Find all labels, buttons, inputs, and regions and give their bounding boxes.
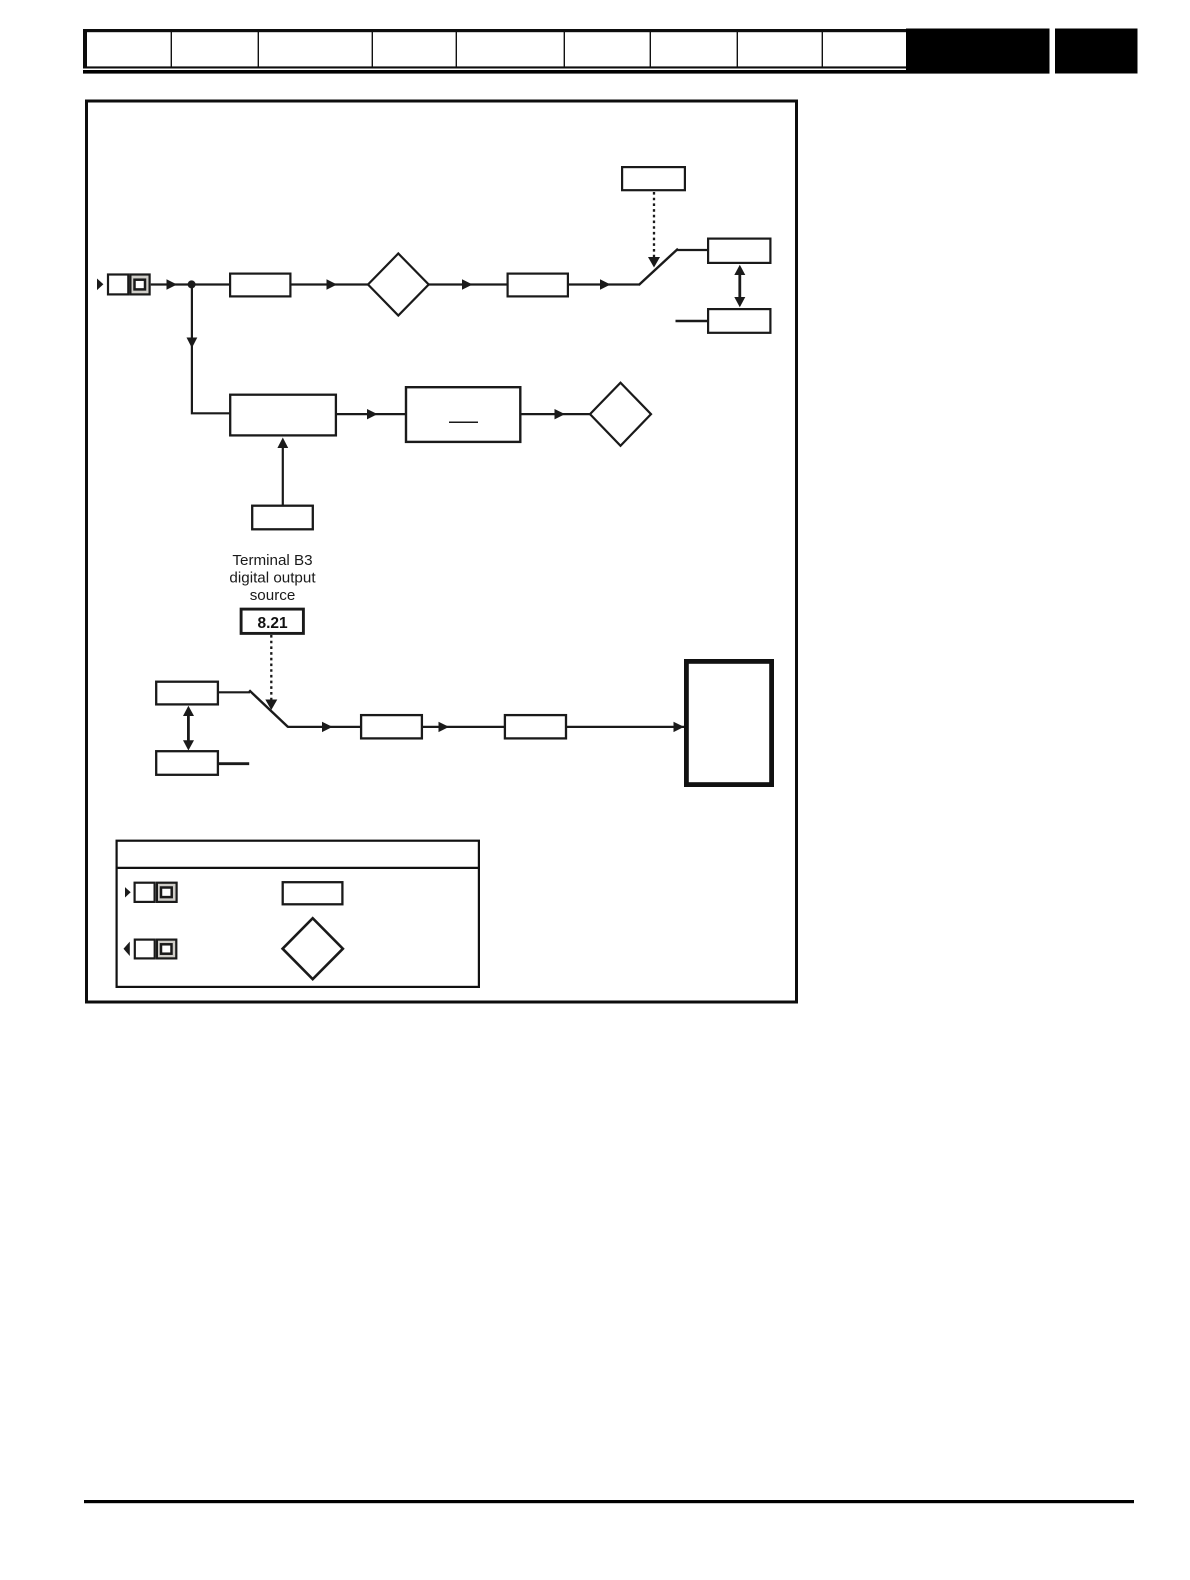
parameter box (top, source) — [622, 167, 685, 190]
box 1 (top row) — [230, 274, 290, 297]
wire box B to output terminal — [567, 726, 684, 728]
dotted select line 2 — [270, 635, 272, 700]
wire box2 to switch1 — [569, 283, 640, 285]
wire delay to function box — [337, 413, 405, 415]
wire input to junction — [151, 283, 192, 285]
wire switch1 to output-state box — [677, 249, 709, 251]
wire junction to box1 — [192, 283, 230, 285]
parameter box 8.21 — [241, 609, 303, 633]
svg-text:digital output: digital output — [229, 570, 316, 587]
header table — [83, 29, 906, 69]
invert box (right bottom) — [708, 309, 770, 333]
switch SW1 arm — [639, 249, 678, 285]
junction node — [188, 280, 196, 288]
double arrow between right boxes — [734, 265, 745, 308]
function box with divide bar — [406, 387, 520, 442]
key rectangle sample — [283, 882, 343, 904]
footer rule — [84, 1500, 1134, 1503]
box A (lower row) — [361, 715, 422, 738]
output terminal box (bold) — [686, 661, 771, 784]
delay box (row 2 large) — [230, 395, 336, 436]
invert box (lower left bottom) — [156, 751, 218, 775]
header page-number black box — [1055, 29, 1138, 74]
stub wire at lower invert box — [219, 762, 249, 765]
diamond 1 — [368, 254, 429, 316]
key read-write icon — [125, 883, 177, 902]
switch SW2 arm — [249, 690, 288, 727]
diamond 2 — [590, 383, 651, 446]
svg-text:8.21: 8.21 — [258, 615, 289, 632]
source select box (below delay) — [252, 506, 313, 530]
B3 state box (lower left top) — [156, 682, 218, 705]
key read-only icon — [124, 940, 177, 959]
dotted select line 1 — [653, 192, 655, 258]
wire junction down to row 2 — [192, 284, 230, 413]
label Terminal B3 digital output source — [229, 552, 316, 604]
box B (lower row) — [505, 715, 566, 738]
box 2 (top row) — [508, 274, 568, 297]
input terminal marker — [97, 275, 150, 295]
wire box1 to diamond1 — [292, 283, 369, 285]
wire function box to diamond2 — [522, 413, 591, 415]
output state box (right top) — [708, 239, 770, 263]
key box — [116, 841, 481, 987]
arrow up from source box — [282, 447, 284, 506]
wire state box to switch2 — [219, 691, 250, 693]
header black tab — [906, 29, 1050, 74]
wire box A to box B — [423, 726, 505, 728]
svg-text:Terminal B3: Terminal B3 — [232, 552, 312, 569]
diagram outer frame — [87, 101, 797, 1002]
wire switch2 to box A — [288, 726, 361, 728]
stub wire at invert box — [676, 320, 709, 322]
key diamond sample — [283, 918, 343, 979]
svg-text:source: source — [250, 587, 296, 604]
wire diamond1 to box2 — [429, 283, 507, 285]
double arrow between lower-left boxes — [183, 706, 194, 751]
header bottom rule — [83, 70, 1050, 74]
